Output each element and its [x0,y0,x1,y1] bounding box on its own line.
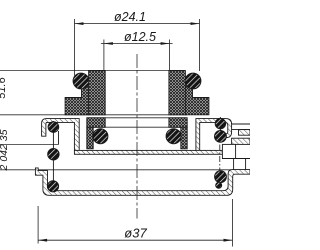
svg-text:ø12.5: ø12.5 [124,30,156,44]
svg-text:ø24.1: ø24.1 [114,10,146,24]
svg-text:2 042 35: 2 042 35 [0,129,10,171]
svg-text:ø37: ø37 [124,226,147,241]
svg-text:51.6: 51.6 [0,76,8,98]
